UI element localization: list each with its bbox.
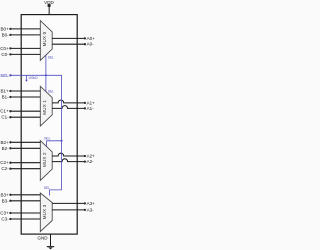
svg-text:C2+: C2+ bbox=[0, 160, 9, 165]
svg-text:A1+: A1+ bbox=[87, 100, 96, 105]
svg-text:B3-: B3- bbox=[2, 198, 10, 203]
svg-text:SEL: SEL bbox=[48, 90, 55, 94]
svg-text:B1-: B1- bbox=[2, 95, 10, 100]
svg-text:C1-: C1- bbox=[1, 115, 9, 120]
svg-text:B2-: B2- bbox=[2, 146, 10, 151]
svg-text:GND: GND bbox=[37, 236, 48, 241]
svg-text:B1+: B1+ bbox=[0, 89, 9, 94]
svg-text:C3+: C3+ bbox=[0, 211, 9, 216]
svg-text:C1+: C1+ bbox=[0, 109, 9, 114]
svg-text:MUX 2: MUX 2 bbox=[42, 152, 47, 167]
svg-text:C0+: C0+ bbox=[0, 46, 9, 51]
svg-text:MUX 3: MUX 3 bbox=[42, 204, 47, 219]
svg-text:SEL: SEL bbox=[44, 186, 51, 190]
svg-text:MUX 0: MUX 0 bbox=[42, 31, 47, 46]
svg-text:B0-: B0- bbox=[2, 32, 10, 37]
svg-text:SEL: SEL bbox=[0, 73, 9, 78]
svg-text:A2+: A2+ bbox=[87, 154, 96, 159]
svg-text:C2-: C2- bbox=[1, 166, 9, 171]
svg-text:B3+: B3+ bbox=[0, 192, 9, 197]
svg-text:C3-: C3- bbox=[1, 217, 9, 222]
svg-text:A0-: A0- bbox=[87, 42, 95, 47]
svg-text:A3-: A3- bbox=[87, 207, 95, 212]
svg-text:100kΩ: 100kΩ bbox=[28, 76, 38, 80]
svg-text:MUX 1: MUX 1 bbox=[42, 100, 47, 115]
svg-text:A3+: A3+ bbox=[87, 201, 96, 206]
svg-text:C0-: C0- bbox=[1, 52, 9, 57]
svg-text:SEL: SEL bbox=[48, 56, 55, 60]
svg-text:VDD: VDD bbox=[44, 0, 54, 5]
svg-text:B0+: B0+ bbox=[0, 26, 9, 31]
svg-text:B2+: B2+ bbox=[0, 140, 9, 145]
svg-text:A0+: A0+ bbox=[87, 36, 96, 41]
svg-text:A2-: A2- bbox=[87, 159, 95, 164]
svg-text:SEL: SEL bbox=[44, 137, 51, 141]
svg-text:A1-: A1- bbox=[87, 106, 95, 111]
